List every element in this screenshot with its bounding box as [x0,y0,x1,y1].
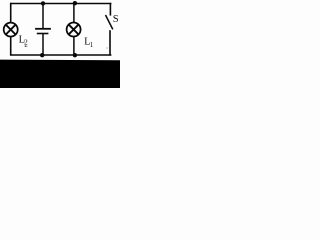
wire: left rail upper segment [10,3,12,23]
svg-text:S: S [113,14,119,25]
wire: bottom rail [10,54,111,56]
node: bottom junction lamp L1 branch [73,53,77,57]
wire: switch branch upper [109,3,111,16]
battery cell: long plate [35,28,51,30]
wire: lamp L1 branch upper [73,4,75,23]
black band (bottom of scan) [0,60,120,88]
wire: top rail [10,3,111,5]
wire: left rail lower segment [10,37,12,56]
lamp L1 [67,23,81,37]
wire: lamp L1 branch lower [73,36,75,55]
wire: battery branch lower [42,34,44,56]
switch S blade (open) [106,15,113,29]
node: top junction lamp L1 branch [73,1,77,5]
battery cell: short plate [37,33,49,35]
background [0,0,120,88]
stray faint dot [106,47,108,49]
stray arrow mark [24,45,27,47]
wire: switch branch lower [109,30,111,55]
lamp L2 [4,23,18,37]
wire: battery branch upper [42,4,44,29]
node: bottom junction battery branch [40,53,44,57]
node: top junction battery branch [41,1,45,5]
svg-text:2: 2 [24,37,28,46]
svg-text:1: 1 [90,41,94,49]
